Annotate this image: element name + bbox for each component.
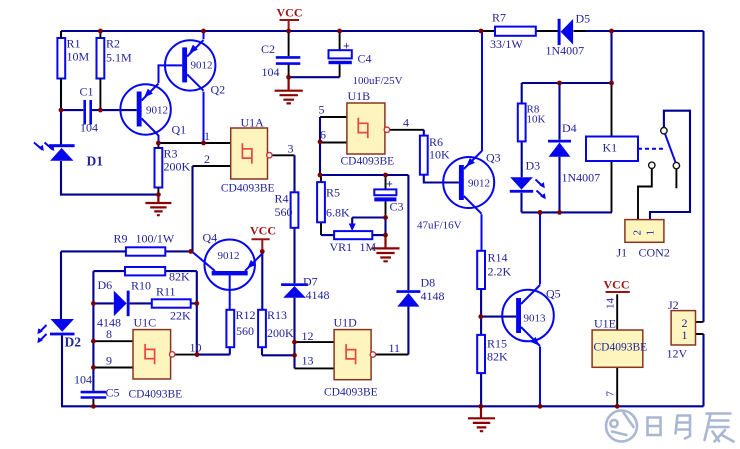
wire R14 R15 Q5 base node (481, 289, 516, 335)
svg-text:47uF/16V: 47uF/16V (417, 220, 462, 232)
wire U1C pin8 (93, 340, 133, 342)
svg-text:CON2: CON2 (639, 246, 670, 260)
svg-text:9012: 9012 (191, 60, 213, 72)
svg-text:+: + (343, 39, 350, 53)
svg-text:Q3: Q3 (486, 151, 501, 165)
resistor R10 (125, 267, 190, 293)
connector J2 12V (667, 298, 696, 361)
svg-text:Q5: Q5 (546, 287, 561, 301)
svg-text:R3: R3 (164, 147, 178, 161)
wire U1D pin12 (295, 341, 335, 343)
power VCC U1E (604, 278, 630, 293)
resistor R4 (275, 192, 299, 228)
svg-text:U1A: U1A (241, 116, 265, 130)
wire R7 leads (481, 30, 586, 32)
wire relay top rail (522, 82, 612, 84)
wire Q1 emitter to Q2 base (159, 65, 183, 83)
svg-text:200K: 200K (267, 326, 294, 340)
op-amp U1A gate CD4093 (204, 116, 294, 195)
wire feedback rail right of R10 (196, 271, 198, 355)
svg-text:9: 9 (106, 354, 112, 368)
connector J1 CON2 (617, 220, 670, 260)
photodiode D1 (34, 143, 103, 169)
wire U1C out pin10 (175, 354, 197, 356)
svg-text:1N4007: 1N4007 (546, 44, 585, 58)
svg-text:R15: R15 (487, 337, 507, 351)
svg-text:104: 104 (80, 121, 98, 135)
svg-text:1: 1 (682, 328, 688, 342)
resistor R15 (477, 335, 508, 373)
svg-text:5.1M: 5.1M (106, 51, 132, 65)
svg-text:14: 14 (605, 298, 617, 310)
svg-text:104: 104 (262, 65, 280, 79)
svg-text:9012: 9012 (218, 250, 240, 262)
svg-text:J1: J1 (617, 246, 628, 260)
svg-text:200K: 200K (164, 160, 191, 174)
svg-text:12V: 12V (667, 347, 688, 361)
wire U1D pin13 (295, 367, 335, 369)
wire U1B out pin4 to R6 (389, 129, 423, 131)
svg-text:U1D: U1D (334, 316, 358, 330)
wire D3 bottom (520, 193, 522, 213)
potentiometer VR1 (330, 224, 377, 255)
svg-text:C2: C2 (261, 42, 275, 56)
wire Q5 collector up (539, 212, 541, 284)
transistor Q4 (193, 231, 263, 290)
wire Q5 emitter down (539, 347, 541, 407)
wire right border down to J2 pin2 (702, 31, 704, 322)
wire D7 to U1D pins (293, 298, 295, 369)
svg-text:10K: 10K (527, 114, 546, 126)
svg-text:R9: R9 (114, 232, 128, 246)
svg-text:4: 4 (403, 116, 409, 130)
power VCC Q4 (250, 224, 276, 240)
wire switch common to J1 pin1 (650, 111, 690, 220)
diode D4 1N4007 (548, 121, 600, 185)
wire bottom ground rail (61, 405, 704, 407)
svg-text:2.2K: 2.2K (488, 265, 512, 279)
svg-text:9012: 9012 (146, 105, 168, 117)
diode D8 4148 (396, 276, 444, 307)
switch contacts (649, 128, 680, 169)
svg-text:5: 5 (319, 103, 325, 117)
svg-text:C5: C5 (106, 386, 120, 400)
resistor R14 (477, 251, 511, 290)
svg-text:12: 12 (302, 329, 314, 343)
resistor R6 (420, 135, 450, 175)
svg-text:R13: R13 (267, 308, 287, 322)
svg-text:J2: J2 (668, 298, 679, 312)
resistor R3 (155, 143, 191, 195)
wire Q4 emitter VCC to R13 (261, 251, 263, 309)
svg-text:R10: R10 (131, 279, 151, 293)
wire C1 row (61, 109, 137, 111)
svg-text:100/1W: 100/1W (136, 232, 175, 246)
transistor Q3 (443, 151, 500, 214)
resistor R8 (518, 104, 546, 142)
relay K1 (586, 137, 664, 162)
svg-text:U1E: U1E (594, 317, 616, 331)
wire R5 leads (320, 175, 322, 235)
watermark logo circle (606, 411, 637, 442)
svg-text:R11: R11 (156, 285, 176, 299)
svg-text:4148: 4148 (306, 288, 330, 302)
wire R8 leads (521, 83, 523, 177)
svg-text:D6: D6 (98, 278, 113, 292)
wire J2 stubs (696, 322, 704, 334)
wire VCC stem Q4 (261, 239, 263, 251)
resistor R13 (258, 308, 294, 347)
svg-text:D8: D8 (421, 276, 436, 290)
led D3 (510, 159, 546, 200)
svg-text:2: 2 (632, 230, 644, 236)
svg-text:C1: C1 (80, 85, 94, 99)
wire R10 right (165, 270, 197, 272)
diode D6 4148 (97, 278, 130, 330)
node junction dots (59, 29, 620, 409)
wire Q2 emitter to rail (203, 31, 205, 39)
svg-text:+: + (386, 177, 393, 191)
wire R15 to ground rail (480, 373, 482, 406)
wire R4 to D7 (293, 228, 295, 283)
svg-text:D3: D3 (526, 159, 541, 173)
svg-text:R2: R2 (106, 37, 120, 51)
diode D7 4148 (281, 275, 329, 303)
capacitor C2 (261, 42, 300, 79)
svg-text:D2: D2 (65, 335, 82, 350)
wire C4 leads (339, 31, 341, 77)
op-amp U1E power part CD4093 (592, 298, 647, 397)
resistor R12 (226, 308, 255, 347)
wire D5 junction down to K1 coil (610, 31, 612, 83)
svg-text:VR1: VR1 (330, 240, 353, 254)
wire C5 bottom (92, 399, 94, 406)
svg-text:R4: R4 (275, 192, 289, 206)
capacitor C4 polarized (329, 39, 403, 88)
transistor Q2 (165, 40, 225, 96)
svg-text:U1B: U1B (348, 89, 371, 103)
svg-text:R12: R12 (236, 308, 256, 322)
svg-text:Q1: Q1 (172, 123, 187, 137)
svg-text:7: 7 (605, 391, 617, 397)
svg-text:1N4007: 1N4007 (562, 171, 601, 185)
wire switch NC contact to J1 pin2 (638, 169, 652, 220)
wire U1E pin14 (616, 294, 618, 330)
wire relay bottom rail (522, 211, 613, 213)
transistor Q5 (502, 285, 560, 346)
svg-text:2: 2 (204, 152, 210, 166)
svg-text:82K: 82K (487, 350, 508, 364)
wire Q2 collector to pin1 (203, 92, 205, 143)
wire Q3 emitter to VCC rail (481, 31, 483, 151)
svg-text:VCC: VCC (604, 278, 630, 292)
wire U1A pin2 feedback (193, 165, 231, 167)
svg-text:U1C: U1C (134, 316, 157, 330)
ground bottom center (468, 406, 495, 431)
svg-text:CD4093BE: CD4093BE (594, 342, 648, 354)
wire C3 bottom to VR1 right and ground (321, 218, 386, 236)
svg-text:R14: R14 (488, 251, 508, 265)
svg-text:82K: 82K (169, 270, 190, 284)
op-amp U1C gate CD4093 (106, 316, 202, 401)
resistor R1 (57, 31, 89, 110)
svg-text:6: 6 (320, 128, 326, 142)
wire Q3 collector to R14 (481, 214, 483, 251)
transistor Q1 (120, 84, 186, 144)
resistor R2 (97, 31, 133, 110)
svg-text:560: 560 (275, 205, 293, 219)
resistor R7 (490, 11, 536, 52)
power VCC top (277, 6, 303, 21)
wire U1D out pin11 (376, 354, 409, 356)
photodiode D2 (37, 319, 81, 350)
wire D8 branch (407, 175, 409, 355)
wire R6 to Q3 base (424, 175, 459, 183)
wire left vertical top section (61, 31, 158, 195)
svg-text:D1: D1 (87, 154, 104, 169)
op-amp U1B gate CD4093 (319, 89, 410, 168)
svg-text:D5: D5 (576, 12, 591, 26)
wire Q4 base to R12 (229, 275, 231, 309)
ground under VR1 (372, 235, 400, 261)
wire U1C pin9 (93, 367, 133, 369)
wire C3 leads (385, 175, 387, 218)
svg-text:104: 104 (74, 373, 92, 387)
svg-text:10K: 10K (429, 148, 450, 162)
svg-text:11: 11 (389, 341, 401, 355)
ground under R3 (145, 195, 171, 216)
svg-text:9012: 9012 (468, 178, 490, 190)
svg-text:1M: 1M (360, 240, 377, 254)
capacitor C1 (80, 85, 99, 135)
svg-text:CD4093BE: CD4093BE (221, 183, 275, 195)
svg-text:10M: 10M (67, 50, 90, 64)
svg-text:1: 1 (204, 129, 210, 143)
wire D4 leads (558, 83, 560, 212)
op-amp U1D gate CD4093 (302, 316, 401, 399)
svg-text:1: 1 (645, 230, 657, 236)
wire VR1 wiper tap (352, 218, 385, 224)
svg-text:D7: D7 (303, 275, 318, 289)
svg-text:D4: D4 (562, 121, 577, 135)
svg-text:9013: 9013 (524, 313, 547, 325)
wire D6 R11 row (93, 302, 196, 304)
svg-text:22K: 22K (170, 309, 191, 323)
svg-text:VCC: VCC (250, 224, 276, 238)
svg-text:6.8K: 6.8K (326, 206, 350, 220)
svg-text:CD4093BE: CD4093BE (341, 156, 395, 168)
wire R9 R10 left rail (93, 271, 125, 391)
svg-text:100uF/25V: 100uF/25V (353, 75, 403, 87)
diode D5 1N4007 (546, 12, 591, 58)
svg-text:Q2: Q2 (211, 83, 226, 97)
svg-text:K1: K1 (603, 141, 618, 155)
svg-text:33/1W: 33/1W (490, 37, 523, 51)
svg-text:3: 3 (288, 142, 294, 156)
svg-text:13: 13 (302, 354, 314, 368)
wire U1A pin1 net (158, 142, 230, 144)
svg-text:Q4: Q4 (203, 231, 218, 245)
svg-text:4148: 4148 (421, 289, 445, 303)
svg-text:R1: R1 (67, 37, 81, 51)
wire right border J2 pin1 to bottom rail (702, 334, 704, 406)
resistor R11 (152, 285, 191, 323)
wire C2 leads (288, 31, 290, 77)
ground under C2 (275, 77, 303, 103)
wire pin10 to R12 (197, 347, 230, 354)
wire RC timing rail (320, 174, 408, 176)
wire C2 to C4 bottom (289, 76, 340, 78)
wire U1B pin5 pin6 tie (320, 117, 347, 143)
svg-text:560: 560 (236, 324, 254, 338)
svg-text:C3: C3 (390, 200, 404, 214)
wire left vertical lower section with R9 line (61, 251, 191, 406)
svg-text:8: 8 (106, 327, 112, 341)
resistor R9 (114, 232, 175, 256)
wire U1E pin7 (616, 367, 618, 406)
svg-text:VCC: VCC (277, 6, 303, 20)
wire VCC stem top (288, 20, 290, 31)
watermark text ri yue chen (648, 414, 734, 442)
svg-text:10: 10 (190, 341, 202, 355)
capacitor C5 (74, 373, 120, 400)
wire switch NO stub (675, 169, 677, 189)
svg-text:R7: R7 (492, 11, 506, 25)
resistor R5 (317, 182, 350, 222)
svg-text:R5: R5 (326, 186, 340, 200)
svg-text:CD4093BE: CD4093BE (129, 389, 183, 401)
wire top VCC rail (61, 30, 704, 32)
wire R13 bottom (262, 347, 295, 355)
wire U1A out to R4 (272, 154, 295, 156)
svg-text:CD4093BE: CD4093BE (324, 387, 378, 399)
svg-text:C4: C4 (358, 52, 372, 66)
capacitor C3 polarized (374, 177, 461, 232)
